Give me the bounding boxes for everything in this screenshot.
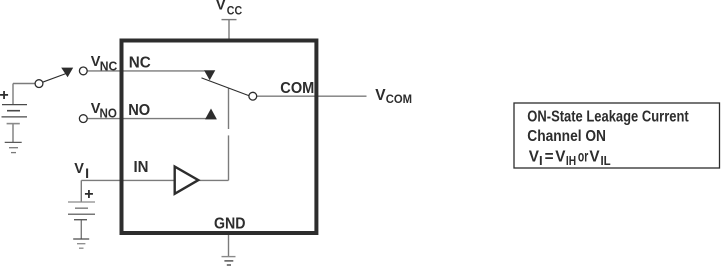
svg-text:+: + — [84, 186, 93, 203]
svg-text:NC: NC — [129, 54, 151, 71]
svg-text:V: V — [375, 87, 386, 104]
svg-text:IN: IN — [134, 159, 149, 176]
svg-text:V: V — [589, 148, 600, 165]
svg-text:or: or — [578, 148, 588, 165]
svg-text:COM: COM — [280, 80, 314, 97]
svg-text:V: V — [216, 0, 226, 14]
svg-text:NC: NC — [100, 58, 118, 73]
svg-text:ON-State Leakage Current: ON-State Leakage Current — [527, 109, 688, 126]
svg-text:CC: CC — [227, 4, 243, 18]
svg-text:NO: NO — [100, 106, 117, 121]
svg-text:V: V — [74, 161, 84, 177]
svg-text:=: = — [545, 148, 554, 165]
svg-text:GND: GND — [214, 215, 246, 232]
svg-text:NO: NO — [128, 102, 150, 119]
svg-text:COM: COM — [386, 94, 412, 106]
svg-text:IL: IL — [601, 153, 611, 168]
svg-text:+: + — [0, 87, 9, 104]
svg-text:I: I — [539, 153, 543, 168]
svg-text:V: V — [555, 148, 566, 165]
svg-text:IH: IH — [566, 153, 576, 168]
svg-text:I: I — [85, 166, 89, 182]
svg-text:Channel ON: Channel ON — [527, 128, 606, 145]
